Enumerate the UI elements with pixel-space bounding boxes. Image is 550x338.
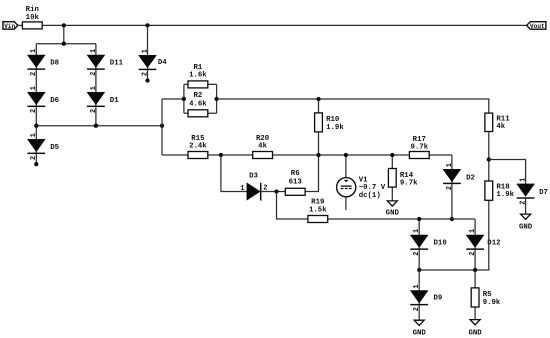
wire R11 to R18 xyxy=(488,132,490,182)
junction D10 / D9 node xyxy=(417,268,421,272)
junction rail above diodes xyxy=(62,42,66,46)
svg-text:9.9k: 9.9k xyxy=(483,299,501,307)
wire D7 to ground xyxy=(525,197,527,214)
wire rail y155 xyxy=(162,154,452,156)
svg-text:D7: D7 xyxy=(539,189,548,197)
R1/R2 parallel bracket left xyxy=(184,84,188,113)
wire D10 column xyxy=(418,219,420,270)
svg-text:Vout: Vout xyxy=(530,23,545,30)
svg-text:D4: D4 xyxy=(158,59,167,67)
svg-text:Vin: Vin xyxy=(4,23,15,30)
junction rail219 / D10 xyxy=(417,217,421,221)
wire R17 to D2 xyxy=(451,155,453,219)
wire R10 column xyxy=(305,99,319,192)
svg-text:1.5k: 1.5k xyxy=(309,206,327,214)
svg-text:613: 613 xyxy=(289,178,303,186)
net tag Vout xyxy=(527,22,546,30)
svg-text:1: 1 xyxy=(30,49,38,53)
diode D4 xyxy=(139,49,168,76)
junction D6-D5 junction xyxy=(34,124,38,128)
wire V1 bottom stub xyxy=(345,197,347,211)
svg-text:1: 1 xyxy=(30,133,38,137)
resistor R1 xyxy=(188,64,208,88)
svg-text:D2: D2 xyxy=(466,175,475,183)
wire rail y219 xyxy=(327,218,475,220)
wire rail above D8-D11 xyxy=(36,43,96,45)
svg-text:1.6k: 1.6k xyxy=(189,71,207,79)
svg-text:GND: GND xyxy=(519,224,533,232)
svg-text:−0.7 V: −0.7 V xyxy=(359,184,386,192)
wire column D11-D1 xyxy=(95,44,97,126)
wire D12 column xyxy=(474,219,476,270)
svg-text:2: 2 xyxy=(413,252,421,256)
ground below R14 xyxy=(386,201,400,218)
ground below D9 xyxy=(413,320,427,337)
svg-text:2: 2 xyxy=(30,156,38,160)
svg-text:D5: D5 xyxy=(50,144,59,152)
diode D8 xyxy=(27,49,59,76)
svg-text:R2: R2 xyxy=(193,92,202,100)
junction R1R2 right node xyxy=(214,97,218,101)
svg-text:2.4k: 2.4k xyxy=(189,142,207,150)
resistor R15 xyxy=(188,135,208,159)
svg-text:R6: R6 xyxy=(291,170,300,178)
junction rail / left vertical xyxy=(160,124,164,128)
diode D12 xyxy=(466,229,500,256)
svg-text:2: 2 xyxy=(30,109,38,113)
svg-text:GND: GND xyxy=(386,210,400,218)
junction R15-R20 / D3 branch xyxy=(219,153,223,157)
voltage source V1 xyxy=(337,176,386,200)
junction rail155 / R14 xyxy=(390,153,394,157)
resistor R10 xyxy=(315,113,345,132)
svg-text:Rin: Rin xyxy=(26,6,39,14)
junction R1R2 left node xyxy=(182,97,186,101)
diode D5 xyxy=(27,133,59,160)
svg-text:GND: GND xyxy=(468,329,482,337)
wire drop to diode bank xyxy=(63,25,65,43)
junction rail155 / V1 xyxy=(344,153,348,157)
resistor R19 xyxy=(308,199,328,223)
svg-text:2: 2 xyxy=(141,72,149,76)
resistor Rin xyxy=(22,6,42,29)
terminal of D4 pin 2 xyxy=(145,78,149,82)
wire D7 branch xyxy=(489,160,526,184)
svg-text:2: 2 xyxy=(30,72,38,76)
svg-text:1: 1 xyxy=(446,163,454,167)
resistor R5 xyxy=(471,288,501,307)
net tag Vin xyxy=(3,22,18,30)
resistor R17 xyxy=(409,136,429,159)
svg-text:1: 1 xyxy=(413,284,421,288)
svg-text:1: 1 xyxy=(469,229,477,233)
junction R10 / rail155 xyxy=(316,153,320,157)
svg-text:1: 1 xyxy=(240,185,244,193)
R1/R2 parallel bracket right xyxy=(208,84,217,113)
svg-text:2: 2 xyxy=(446,186,454,190)
diode D2 xyxy=(443,163,475,190)
svg-text:V1: V1 xyxy=(359,176,368,184)
svg-text:1.9k: 1.9k xyxy=(496,191,514,199)
svg-text:1.9k: 1.9k xyxy=(326,124,344,132)
svg-text:1: 1 xyxy=(413,229,421,233)
svg-text:1: 1 xyxy=(141,49,149,53)
svg-text:D9: D9 xyxy=(434,295,443,303)
diode D6 xyxy=(27,86,59,113)
svg-text:4.6k: 4.6k xyxy=(189,100,207,108)
wire R5 column xyxy=(474,270,476,320)
svg-text:9.7k: 9.7k xyxy=(400,179,418,187)
junction D12 / R5 node xyxy=(473,268,477,272)
svg-text:1: 1 xyxy=(520,178,528,182)
wire R1R2 output rail xyxy=(217,99,489,113)
terminal of D5 pin 2 xyxy=(34,162,38,166)
wire D3 cathode to R6 xyxy=(260,191,286,193)
wire R14 column xyxy=(391,155,393,201)
svg-text:D11: D11 xyxy=(110,60,124,68)
diode D1 xyxy=(87,86,119,113)
junction main-wire / diode-bank xyxy=(62,23,66,27)
svg-text:10k: 10k xyxy=(26,14,40,22)
resistor R2 xyxy=(188,92,208,117)
svg-text:D3: D3 xyxy=(249,173,258,181)
junction rail99 / R10 xyxy=(316,97,320,101)
svg-text:GND: GND xyxy=(413,329,427,337)
ground below D7 xyxy=(519,214,533,232)
wire column D8-D6-D5 xyxy=(35,44,37,165)
svg-text:2: 2 xyxy=(90,72,98,76)
svg-text:D10: D10 xyxy=(434,240,447,248)
wire D3 anode branch xyxy=(221,155,247,192)
wire bottom rail y270 xyxy=(419,200,489,270)
junction R11-R18 / D7 branch xyxy=(487,157,491,161)
junction main-wire / D4 xyxy=(145,23,149,27)
svg-text:1: 1 xyxy=(30,86,38,90)
svg-text:D6: D6 xyxy=(50,97,59,105)
diode D3 xyxy=(240,173,267,201)
resistor R18 xyxy=(485,181,515,200)
svg-text:2: 2 xyxy=(469,252,477,256)
diode D10 xyxy=(410,229,446,256)
wire Vin to Rin xyxy=(18,24,23,26)
resistor R11 xyxy=(485,113,510,131)
svg-text:2: 2 xyxy=(90,109,98,113)
svg-text:1: 1 xyxy=(90,49,98,53)
svg-text:9.7k: 9.7k xyxy=(410,144,428,152)
svg-text:2: 2 xyxy=(520,201,528,205)
svg-text:4k: 4k xyxy=(496,123,505,131)
wire R19 branch down xyxy=(277,192,309,220)
wire node A to R1R2 bracket xyxy=(162,98,184,100)
wire main Rin to Vout xyxy=(42,24,527,26)
resistor R20 xyxy=(253,135,273,159)
diode D11 xyxy=(87,49,124,76)
junction D3 cathode node xyxy=(274,189,278,193)
wire rail D5/D1 to left vertical xyxy=(36,125,162,127)
ground below R5 xyxy=(468,320,482,338)
svg-text:2: 2 xyxy=(413,307,421,311)
resistor R14 xyxy=(388,169,418,188)
svg-text:dc(1): dc(1) xyxy=(359,192,381,200)
resistor R6 xyxy=(285,170,305,195)
diode D9 xyxy=(410,284,442,311)
svg-text:4k: 4k xyxy=(258,142,267,150)
diode D7 xyxy=(517,178,548,205)
wire column D4 xyxy=(147,25,149,80)
wire left vertical node A xyxy=(161,99,163,155)
svg-text:1: 1 xyxy=(90,86,98,90)
wire D9 column xyxy=(418,270,420,320)
junction D1 to rail xyxy=(94,124,98,128)
svg-text:D8: D8 xyxy=(50,60,59,68)
wire V1 top stem xyxy=(345,155,347,178)
junction D2 cathode / rail219 xyxy=(450,217,454,221)
svg-text:D1: D1 xyxy=(110,97,119,105)
